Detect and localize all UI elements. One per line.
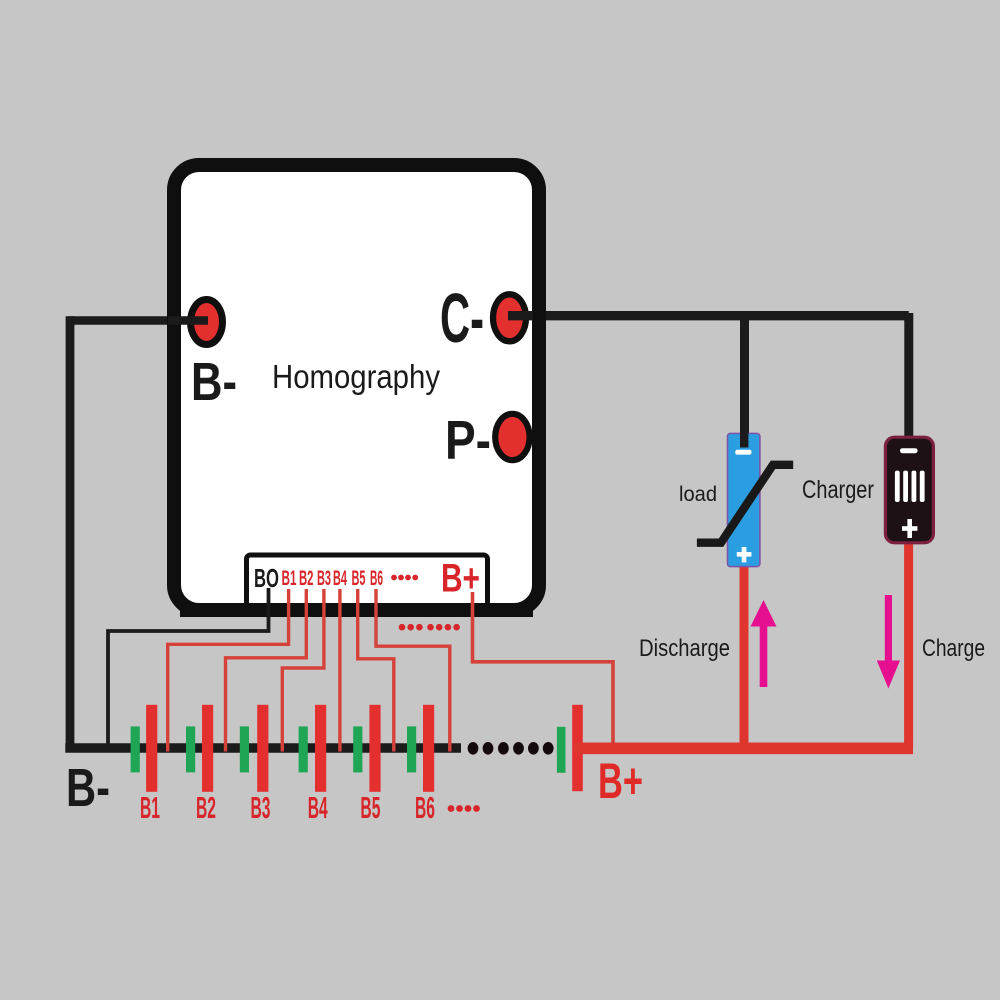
charge arrow	[877, 595, 900, 689]
svg-text:C-: C-	[440, 279, 484, 357]
svg-text:B1: B1	[140, 790, 160, 825]
svg-text:B6: B6	[415, 790, 435, 825]
BMS board U1	[174, 165, 539, 610]
svg-text:B2: B2	[299, 567, 314, 590]
wire BO black	[108, 588, 269, 744]
svg-text:Discharge: Discharge	[639, 635, 730, 662]
charger CH1	[885, 437, 933, 543]
svg-text:B3: B3	[317, 567, 331, 590]
pad B-	[191, 300, 223, 345]
wire charge (charger to bus)	[904, 543, 913, 748]
svg-text:B1: B1	[282, 567, 297, 590]
load plus mark	[737, 552, 752, 557]
battery bus wire	[65, 743, 461, 753]
cell B3	[240, 726, 249, 772]
svg-text:B4: B4	[308, 790, 328, 825]
svg-text:Homography: Homography	[272, 358, 440, 395]
wire C- pad to right	[508, 311, 909, 320]
connector box J1	[247, 555, 488, 614]
load LD1	[728, 433, 760, 566]
cell B1	[131, 726, 140, 772]
wire discharge (load to bus)	[740, 566, 749, 748]
cell B5	[353, 726, 362, 772]
svg-text:load: load	[679, 483, 717, 506]
pin dots	[391, 575, 418, 581]
wire B5 red	[358, 589, 394, 752]
svg-text:P-: P-	[445, 409, 491, 471]
charger plus mark	[902, 526, 917, 531]
cell B6	[407, 726, 416, 772]
svg-text:B5: B5	[352, 567, 366, 590]
cell B2	[186, 726, 195, 772]
svg-text:B3: B3	[251, 790, 271, 825]
svg-text:Charge: Charge	[922, 635, 985, 662]
wire stub into C- pad	[508, 311, 533, 320]
svg-text:B+: B+	[598, 753, 643, 809]
cell B4	[299, 726, 308, 772]
wire B6 red	[376, 589, 450, 752]
svg-text:B5: B5	[360, 790, 380, 825]
wire right vertical down to charger	[904, 313, 913, 437]
svg-text:Charger: Charger	[802, 476, 874, 504]
svg-text:B-: B-	[66, 758, 110, 818]
wire into load	[740, 432, 748, 448]
svg-text:B-: B-	[191, 352, 237, 412]
svg-text:B+: B+	[441, 557, 480, 601]
wire B- pad to left edge	[69, 316, 210, 325]
board bottom border overlay	[180, 603, 533, 617]
wire left vertical down to battery bus	[66, 316, 75, 748]
svg-text:B2: B2	[196, 790, 216, 825]
switch SW1	[697, 465, 793, 543]
wire B3 red	[282, 589, 324, 752]
charger minus mark	[900, 448, 918, 453]
svg-text:BO: BO	[254, 563, 279, 593]
wire branch down to load	[740, 316, 749, 435]
dots row below box	[399, 624, 460, 631]
charger grill	[895, 471, 925, 502]
wire B+ red	[473, 592, 614, 746]
bus continuation dots	[468, 742, 554, 755]
svg-text:B6: B6	[370, 567, 383, 590]
dots after B6 label	[448, 805, 480, 812]
cell B+ terminal	[557, 727, 566, 773]
wire B2 red	[226, 589, 307, 752]
pad P-	[495, 414, 529, 460]
wire B1 red	[168, 589, 289, 752]
load minus mark	[735, 450, 751, 455]
red bus B+ to charger	[574, 742, 913, 754]
discharge arrow	[751, 600, 777, 687]
wire B4 red	[338, 589, 341, 752]
wire stub into B- pad	[168, 316, 208, 325]
svg-text:B4: B4	[333, 567, 347, 590]
pad C-	[493, 294, 526, 341]
